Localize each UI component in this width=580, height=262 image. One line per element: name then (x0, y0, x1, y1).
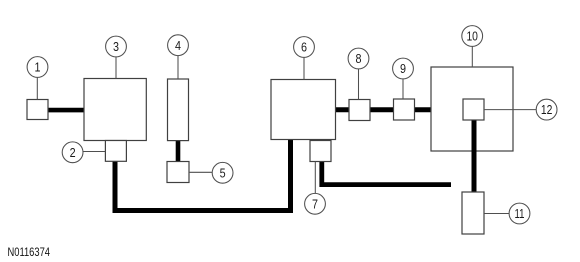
box B9: connector 9 (394, 99, 415, 120)
svg-text:10: 10 (466, 29, 478, 44)
callout leader line 8 (358, 69, 360, 100)
box B12: connector 12 inside module 10 (463, 99, 484, 120)
callout leader line 2 (83, 151, 105, 153)
callout circle 6 (294, 37, 315, 58)
wire W2: module 6 through connectors 8,9 to module 10 (335, 107, 432, 112)
callout leader line 4 (177, 56, 179, 80)
callout leader line 11 (484, 213, 509, 215)
svg-text:12: 12 (541, 102, 553, 117)
svg-text:9: 9 (400, 61, 406, 76)
callout circle 3 (106, 36, 127, 57)
wire W3: component 4 to connector 5 (176, 140, 181, 162)
callout circle 1 (27, 57, 48, 78)
callout circle 9 (393, 58, 414, 79)
svg-text:1: 1 (35, 60, 41, 75)
box B5: connector 5 (167, 162, 189, 183)
box B4: component 4 (168, 79, 189, 141)
callout circle 2 (62, 142, 83, 163)
callout leader line 6 (303, 58, 305, 80)
box B1: connector 1 (27, 100, 48, 120)
callout circle 12 (536, 99, 557, 120)
svg-text:N0116374: N0116374 (8, 247, 51, 259)
svg-text:11: 11 (515, 206, 525, 221)
box B3: module 3 (84, 79, 146, 141)
box B2: connector 2 below module 3 (105, 141, 126, 162)
callout circle 5 (212, 162, 233, 183)
svg-text:2: 2 (70, 145, 76, 160)
callout leader line 9 (402, 79, 404, 99)
wire W5: connector 7 down and right (322, 161, 451, 185)
wire W1: connector 1 to module 3 (48, 108, 85, 113)
svg-text:6: 6 (301, 40, 307, 55)
callout circle 4 (168, 35, 189, 56)
callout leader line 12 (484, 109, 536, 111)
svg-text:3: 3 (113, 39, 119, 54)
callout leader line 3 (115, 57, 117, 79)
wire W6: connector 12 down to component 11 (472, 121, 477, 193)
svg-text:7: 7 (312, 196, 318, 211)
box B8: connector 8 (349, 100, 370, 121)
callout leader line 7 (314, 162, 316, 194)
callout circle 8 (348, 48, 369, 69)
box B6: module 6 (271, 80, 336, 140)
callout leader line 5 (189, 171, 212, 173)
wire W4: connector 2 down, right, up to module 6 (115, 140, 291, 211)
callout leader line 1 (36, 78, 38, 100)
svg-text:8: 8 (356, 51, 362, 66)
svg-text:5: 5 (220, 165, 226, 180)
callout circle 10 (462, 26, 483, 47)
box B11: component 11 (462, 192, 484, 234)
callout circle 11 (509, 203, 530, 224)
svg-text:4: 4 (175, 38, 181, 53)
box B10: module 10 outline (431, 67, 513, 151)
box B7: connector 7 below module 6 (310, 141, 331, 162)
callout circle 7 (305, 193, 326, 214)
callout leader line 10 (471, 47, 473, 68)
